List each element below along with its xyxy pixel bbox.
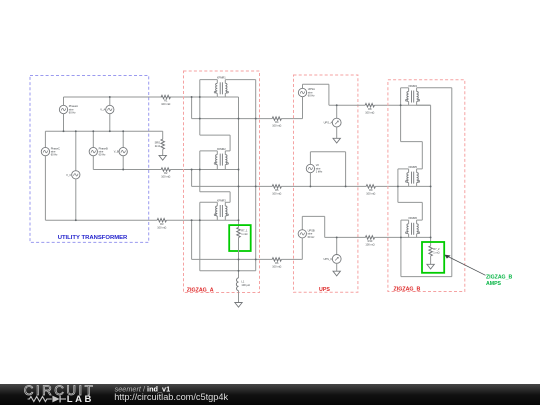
svg-text:SRG: SRG	[155, 140, 161, 144]
svg-text:V_B: V_B	[114, 150, 119, 154]
svg-text:100 mΩ: 100 mΩ	[161, 175, 170, 179]
source UPSC	[298, 216, 315, 259]
utility transformer enclosure box	[30, 76, 149, 243]
wire UPS_A to ground	[336, 127, 338, 139]
ground UPS_A	[333, 138, 340, 143]
wire XFMR6 coil bottom stubs	[409, 234, 417, 238]
svg-text:UPS_C: UPS_C	[324, 257, 333, 261]
transformer XFMR6	[407, 224, 409, 234]
resistor R7_1 sense	[237, 227, 248, 237]
wire phase C drop to bus C	[191, 220, 193, 259]
svg-text:1 kHz: 1 kHz	[316, 170, 323, 174]
svg-text:UPS: UPS	[319, 287, 330, 293]
resistor R7_2 sense	[429, 246, 440, 256]
source UPSA	[298, 84, 315, 118]
wire chain XFMR4 to XFMR5	[401, 105, 423, 172]
resistor R5	[272, 185, 281, 196]
svg-text:XFMR1: XFMR1	[217, 76, 226, 80]
ammeter UPS_A	[324, 105, 341, 127]
svg-text:R3: R3	[160, 222, 164, 226]
svg-text:60 Hz: 60 Hz	[69, 111, 76, 115]
wire bus phase B	[93, 169, 238, 171]
wire neutral mid bus	[45, 130, 162, 132]
transformer XFMR5	[407, 173, 409, 183]
wire XFMR4 left top to phase A	[401, 88, 409, 105]
resistor R3	[157, 219, 166, 230]
resistor R1	[161, 95, 170, 106]
svg-text:ZIGZAG_A: ZIGZAG_A	[187, 287, 214, 293]
svg-text:XFMR5: XFMR5	[408, 165, 417, 169]
ground for SRG	[159, 155, 166, 160]
svg-text:100 mΩ: 100 mΩ	[157, 225, 166, 229]
svg-text:R9: R9	[369, 188, 373, 192]
svg-text:UPS_A: UPS_A	[324, 121, 333, 125]
wire zigzag B loop bottom	[401, 237, 452, 276]
svg-text:1 mΩ: 1 mΩ	[241, 232, 247, 236]
wire chain XFMR1 to XFMR2	[200, 97, 230, 155]
ground UPS_C	[333, 271, 340, 276]
wire zigzag A loop bottom	[200, 220, 256, 271]
svg-text:R8: R8	[368, 107, 372, 111]
svg-text:100 mΩ: 100 mΩ	[161, 102, 170, 106]
svg-text:XFMR6: XFMR6	[408, 216, 417, 220]
svg-text:ZIGZAG_B: ZIGZAG_B	[486, 275, 512, 281]
svg-text:V_C: V_C	[66, 173, 71, 177]
ground below ZIGZAG_A	[235, 303, 242, 308]
svg-text:V_A: V_A	[100, 108, 105, 112]
resistor R6	[272, 258, 281, 269]
wire XFMR3 left top to phase C	[200, 202, 218, 220]
svg-text:R5: R5	[275, 188, 279, 192]
source PhaseA	[59, 97, 78, 131]
inductor L1	[236, 278, 250, 291]
svg-text:ZIGZAG_B: ZIGZAG_B	[394, 287, 421, 293]
wire XFMR6 left top to phase C	[401, 220, 409, 237]
transformer XFMR1	[216, 83, 218, 93]
resistor R8	[365, 104, 374, 115]
svg-text:100 mΩ: 100 mΩ	[365, 110, 374, 114]
ZIGZAG_B enclosure box	[388, 80, 465, 293]
wire UPSC top to phase C line	[302, 216, 324, 237]
wire phase B to ZIGZAG_B	[310, 185, 430, 187]
wire phase B drop to bus B	[191, 170, 193, 187]
svg-text:60 Hz: 60 Hz	[308, 94, 315, 98]
wire XFMR5 left top to phase B	[398, 169, 409, 187]
junction dots utility buses	[63, 96, 125, 221]
wire tie down through bus C	[238, 237, 240, 278]
ammeter UPS_C	[324, 237, 342, 263]
source UPSB	[306, 152, 323, 187]
wire bus phase A top	[64, 96, 217, 98]
svg-text:60 Hz: 60 Hz	[51, 153, 58, 157]
junction dots ZIGZAG_B	[397, 104, 432, 238]
svg-text:R2: R2	[164, 171, 168, 175]
svg-text:R10: R10	[368, 239, 373, 243]
svg-text:XFMR4: XFMR4	[408, 84, 417, 88]
svg-text:100 mΩ: 100 mΩ	[366, 192, 375, 196]
wire XFMR1 left primary top to phase A	[200, 80, 218, 97]
wire XFMR1 right secondary top to loop return	[225, 80, 255, 271]
ground ZIGZAG_B sense	[427, 264, 434, 269]
wire bus C to UPS	[192, 258, 303, 260]
svg-text:100 mΩ: 100 mΩ	[365, 243, 374, 247]
source PhaseC	[41, 131, 60, 220]
transformer XFMR3	[216, 206, 218, 216]
svg-text:2k Ω: 2k Ω	[155, 144, 160, 148]
svg-text:http://circuitlab.com/c5tgp4k: http://circuitlab.com/c5tgp4k	[114, 392, 228, 402]
wire XFMR2 left top to phase B	[200, 151, 218, 170]
svg-text:1 mΩ: 1 mΩ	[433, 251, 439, 255]
source V_B	[114, 131, 128, 169]
source V_C	[66, 131, 80, 220]
svg-text:UTILITY TRANSFORMER: UTILITY TRANSFORMER	[58, 235, 128, 241]
svg-text:XFMR3: XFMR3	[217, 198, 226, 202]
wire XFMR5 coil bottom stubs	[409, 183, 417, 187]
wire XFMR4 right top to loop return	[417, 88, 452, 277]
svg-text:60 Hz: 60 Hz	[99, 153, 106, 157]
wire L1 to ground	[238, 291, 240, 303]
svg-text:R6: R6	[275, 261, 279, 265]
resistor R4	[272, 117, 281, 128]
svg-text:R7_2: R7_2	[433, 247, 440, 251]
UPS enclosure box	[294, 75, 358, 293]
ZIGZAG_A enclosure box	[184, 71, 260, 293]
source V_A	[100, 97, 114, 131]
wire XFMR1 coil bottom stubs	[217, 93, 225, 97]
svg-text:R7_1: R7_1	[241, 229, 248, 233]
annotation arrow to ZIGZAG_B AMPS	[444, 255, 485, 276]
wire output A to ZIGZAG_B	[329, 104, 431, 106]
resistor R9	[366, 185, 375, 196]
wire UPSB top to phase B line	[310, 152, 345, 187]
svg-text:LAB: LAB	[67, 394, 94, 405]
wire XFMR4 coil bottom stubs	[409, 102, 417, 106]
wire UPSA top to output A	[303, 84, 329, 105]
wire chain XFMR5 to XFMR6	[398, 186, 422, 223]
wire R7_2 to ground	[430, 256, 432, 264]
source PhaseB	[89, 131, 108, 169]
svg-text:100 μH: 100 μH	[241, 283, 250, 287]
wire XFMR3 coil bottom stubs	[217, 216, 225, 220]
wire chain XFMR2 to XFMR3	[200, 170, 230, 207]
resistor R10	[365, 236, 374, 247]
wire phase C to ZIGZAG_B	[325, 236, 431, 238]
svg-text:100 mΩ: 100 mΩ	[272, 265, 281, 269]
junction dots UPS	[309, 104, 346, 238]
wire bus phase C bottom	[45, 219, 238, 221]
resistor R2	[161, 168, 170, 179]
wire XFMR1 right secondary bottom to long tie	[217, 97, 238, 227]
wire XFMR2 coil bottom stubs	[217, 165, 225, 170]
svg-text:R4: R4	[275, 120, 279, 124]
svg-text:R1: R1	[164, 99, 168, 103]
wire UPS_C to ground	[336, 263, 338, 271]
green probe box ZIGZAG_B	[422, 242, 444, 273]
resistor SRG neutral grounding	[155, 131, 165, 155]
wire bus A to UPS	[192, 118, 303, 120]
wire phase A drop to bus A	[191, 97, 193, 119]
annotation text ZIGZAG_B AMPS	[486, 275, 512, 288]
svg-text:XFMR2: XFMR2	[217, 147, 226, 151]
green probe box ZIGZAG_A	[229, 225, 251, 251]
svg-text:100 mΩ: 100 mΩ	[272, 124, 281, 128]
svg-text:60 Hz: 60 Hz	[308, 235, 315, 239]
svg-text:AMPS: AMPS	[486, 281, 502, 287]
junction dots ZIGZAG_A	[191, 96, 257, 272]
svg-text:100 mΩ: 100 mΩ	[272, 192, 281, 196]
wire phase A into tie	[417, 105, 431, 246]
transformer XFMR2	[216, 155, 218, 165]
transformer XFMR4	[407, 92, 409, 102]
wire bus B to UPS	[192, 185, 311, 187]
